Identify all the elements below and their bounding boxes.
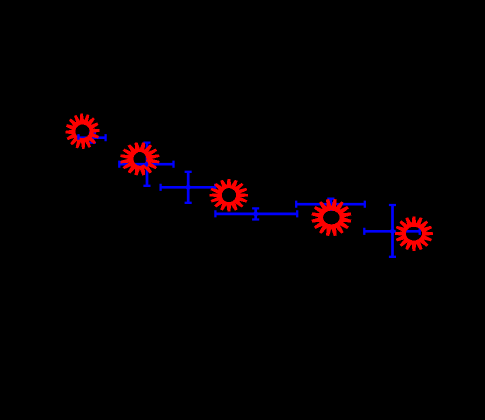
marker diamond P1 [89,135,97,141]
marker diamond P5 [389,228,397,234]
red starburst S2 [120,142,159,175]
marker diamond P2 (visible part) [143,161,148,167]
error bars point P3b [215,208,297,219]
error bars point P5 [364,205,419,257]
red starburst S4 [311,199,351,236]
marker diamond P3a [184,184,192,190]
red starburst S3 [210,179,249,211]
error bars point P4 [296,199,365,210]
error bars point P1 [79,133,106,143]
marker diamond P4 [327,201,335,207]
marker diamond P3b [252,211,260,217]
marker diamond P2 [143,161,151,167]
error bar cap P1 left (visible over ring) [77,135,79,140]
red starburst S5 [395,216,433,250]
error bars point P2 [119,143,173,186]
red starburst S1 [65,114,99,150]
error bars point P3a [161,172,216,203]
